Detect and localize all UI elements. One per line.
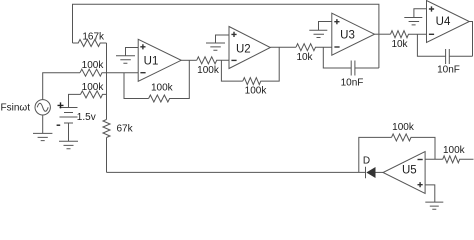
- ground U3: [309, 30, 327, 37]
- resistor 67k: [103, 120, 110, 138]
- wire U2 feedback: [221, 60, 242, 81]
- capacitor 10nF U3: [351, 61, 355, 76]
- minus sign U1: [140, 72, 145, 74]
- wire top feedback from U3 output to 167k: [73, 4, 379, 68]
- svg-text:100k: 100k: [82, 82, 105, 93]
- wire summing node to U1 minus input: [107, 72, 139, 74]
- wire ground to U3 plus input: [319, 22, 332, 31]
- wire U3 output: [375, 33, 391, 35]
- wire diode to U5 output: [376, 171, 384, 173]
- svg-text:100k: 100k: [443, 145, 466, 156]
- diode D cathode bar: [365, 167, 367, 179]
- diode D: [366, 167, 375, 178]
- svg-text:D: D: [363, 156, 370, 167]
- svg-text:100k: 100k: [197, 65, 220, 76]
- svg-text:100k: 100k: [151, 82, 174, 93]
- ground source: [33, 133, 52, 140]
- resistor 100k U1 feedback: [149, 60, 190, 102]
- capacitor 10nF U4: [446, 49, 450, 64]
- op-amp U2: [229, 27, 270, 69]
- svg-text:10k: 10k: [296, 52, 313, 63]
- battery B1: [60, 108, 78, 142]
- plus sign U1: [140, 44, 145, 49]
- resistor 100k U5 feedback: [392, 134, 436, 159]
- minus sign U2: [231, 59, 236, 61]
- svg-text:1.5v: 1.5v: [77, 112, 96, 123]
- op-amp U3: [332, 13, 375, 55]
- svg-text:U3: U3: [340, 30, 355, 42]
- svg-text:167k: 167k: [82, 31, 105, 42]
- resistor 100k U5 input: [443, 156, 474, 163]
- minus sign U3: [334, 46, 339, 48]
- ground U4: [404, 18, 422, 25]
- svg-text:10nF: 10nF: [437, 64, 460, 75]
- wire U4 output: [469, 22, 472, 57]
- battery plus sign: [58, 102, 64, 108]
- svg-text:67k: 67k: [117, 124, 134, 135]
- resistor 100k U1 to U2: [197, 57, 229, 64]
- wire U5 minus input: [425, 158, 443, 160]
- ground U2: [206, 43, 225, 50]
- svg-text:100k: 100k: [392, 122, 415, 133]
- wire U1 feedback: [124, 73, 149, 99]
- svg-text:Fsinωt: Fsinωt: [1, 103, 31, 114]
- ground battery: [59, 141, 78, 148]
- svg-text:U4: U4: [436, 16, 451, 28]
- wire ground to U2 plus input: [216, 35, 230, 43]
- wire ground to U4 plus input: [414, 9, 427, 18]
- battery minus sign: [57, 124, 61, 126]
- resistor 167k: [73, 40, 107, 47]
- op-amp U5: [383, 152, 425, 194]
- resistor 10k U3 to U4: [391, 31, 427, 38]
- wire U5 feedback: [359, 137, 392, 172]
- ground U1: [116, 56, 135, 64]
- wire battery to 100k: [69, 94, 81, 107]
- minus sign U5: [418, 159, 423, 161]
- svg-text:10k: 10k: [391, 39, 408, 50]
- plus sign U4: [429, 6, 434, 11]
- svg-text:100k: 100k: [82, 60, 105, 71]
- wire ground to U1 plus input: [126, 48, 139, 56]
- resistor 10k U2 to U3: [296, 44, 332, 51]
- ground U5: [425, 202, 443, 209]
- plus sign U3: [334, 19, 339, 24]
- wire U4 feedback down: [417, 34, 472, 56]
- svg-text:U2: U2: [236, 43, 251, 55]
- resistor 100k U2 feedback: [243, 47, 279, 84]
- op-amp U4: [427, 1, 470, 43]
- minus sign U4: [429, 33, 434, 35]
- resistor 100k from source: [80, 69, 107, 76]
- plus sign U5: [418, 182, 423, 187]
- svg-text:100k: 100k: [245, 85, 268, 96]
- resistor 100k from battery: [81, 91, 107, 98]
- op-amp U1: [138, 39, 181, 81]
- svg-text:10nF: 10nF: [341, 77, 364, 88]
- source V1 Fsin(wt): [35, 100, 50, 115]
- wire U5 plus to ground: [425, 185, 435, 202]
- wire summing node vertical: [106, 43, 108, 172]
- svg-text:U5: U5: [402, 164, 417, 176]
- wire U2 output: [270, 46, 296, 48]
- plus sign U2: [231, 32, 236, 37]
- wire bottom from summing node to diode: [107, 171, 366, 173]
- wire source to ground: [42, 115, 44, 133]
- wire U3 minus junction down: [323, 47, 379, 68]
- wire U1 output: [181, 59, 197, 61]
- sine symbol: [37, 103, 48, 111]
- svg-text:U1: U1: [144, 56, 159, 68]
- wire source to row D: [43, 73, 80, 100]
